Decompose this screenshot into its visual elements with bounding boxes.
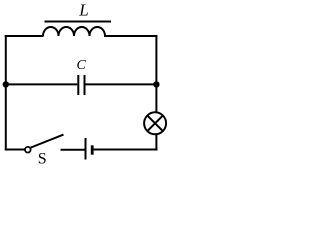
wire right vertical lower [155,134,157,151]
svg-text:S: S [38,150,47,164]
wire bottom right segment [94,149,158,151]
battery short plate [91,145,94,154]
wire top right segment [104,35,157,37]
wire right vertical upper [155,35,157,85]
lamp bulb circle [144,112,166,134]
lamp X diagonal 2 [147,116,162,131]
capacitor C left plate [77,75,79,95]
wire top left segment [5,35,44,37]
wire middle left segment [6,83,78,85]
wire left vertical [5,35,7,151]
lamp X diagonal 1 [147,116,162,131]
wire middle right segment [86,83,157,85]
wire right vertical mid [155,84,157,113]
wire battery to switch contact [61,149,85,151]
inductor L core bar [45,21,112,23]
node junction right [153,81,159,87]
svg-text:L: L [78,0,88,19]
svg-text:C: C [77,58,87,73]
node junction left [3,81,9,87]
capacitor C right plate [84,75,86,95]
wire bottom left segment [5,149,25,151]
battery long plate [85,138,87,160]
switch S pivot circle [25,147,31,153]
inductor L coil [43,27,105,36]
switch S lever [30,135,64,148]
